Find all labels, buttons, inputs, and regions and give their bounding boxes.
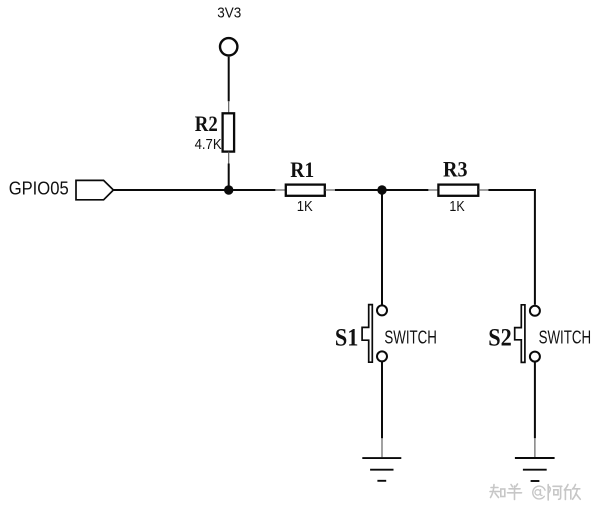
pin R3 right [478, 189, 488, 191]
svg-text:SWITCH: SWITCH [384, 327, 437, 347]
wire junction B to R3 [382, 189, 428, 191]
port GPIO05 [76, 180, 113, 199]
pin R3 left [428, 189, 438, 191]
resistor R2 body [223, 113, 235, 151]
svg-text:S2: S2 [488, 325, 512, 352]
svg-text:4.7K: 4.7K [195, 136, 222, 153]
wire corner down to S2 [534, 189, 536, 305]
switch S1 top contact [377, 305, 387, 315]
wire 3V3 to R2 [228, 57, 230, 102]
svg-text:1K: 1K [297, 199, 313, 215]
switch S2 bottom contact [530, 352, 540, 362]
resistor R1 body [286, 185, 325, 196]
pin ground 1 [381, 438, 383, 457]
pin R1 right [325, 189, 335, 191]
pin R2 top [228, 101, 230, 113]
wire S2 to ground [534, 362, 536, 438]
svg-text:R2: R2 [195, 111, 218, 136]
pin R2 bottom [228, 152, 230, 164]
pin R1 left [275, 189, 285, 191]
junction A [224, 185, 233, 194]
switch S1 bottom contact [377, 351, 387, 361]
resistor R3 body [438, 185, 478, 196]
svg-text:R3: R3 [443, 156, 468, 181]
switch S2 top contact [530, 306, 540, 316]
ground 1 [362, 458, 401, 481]
wire port to junction A [113, 189, 228, 191]
ground 2 [515, 458, 555, 481]
junction B [377, 185, 386, 194]
wire junction B down to S1 [381, 190, 383, 305]
svg-text:SWITCH: SWITCH [539, 327, 592, 347]
pin ground 2 [534, 438, 536, 457]
wire R2 to junction A [228, 164, 230, 191]
svg-text:S1: S1 [335, 325, 359, 352]
svg-text:R1: R1 [290, 157, 314, 182]
wire R1 to junction B [335, 189, 382, 191]
switch S2 actuator [515, 305, 525, 363]
wire junction A to R1 [229, 189, 276, 191]
watermark zhihu @axin [490, 484, 580, 500]
wire R3 to corner [488, 189, 536, 191]
svg-text:1K: 1K [449, 199, 465, 215]
switch S1 actuator [362, 305, 372, 363]
svg-text:3V3: 3V3 [217, 5, 241, 22]
wire S1 to ground [381, 362, 383, 439]
svg-text:GPIO05: GPIO05 [9, 179, 69, 199]
power port 3V3 circle [220, 38, 237, 55]
